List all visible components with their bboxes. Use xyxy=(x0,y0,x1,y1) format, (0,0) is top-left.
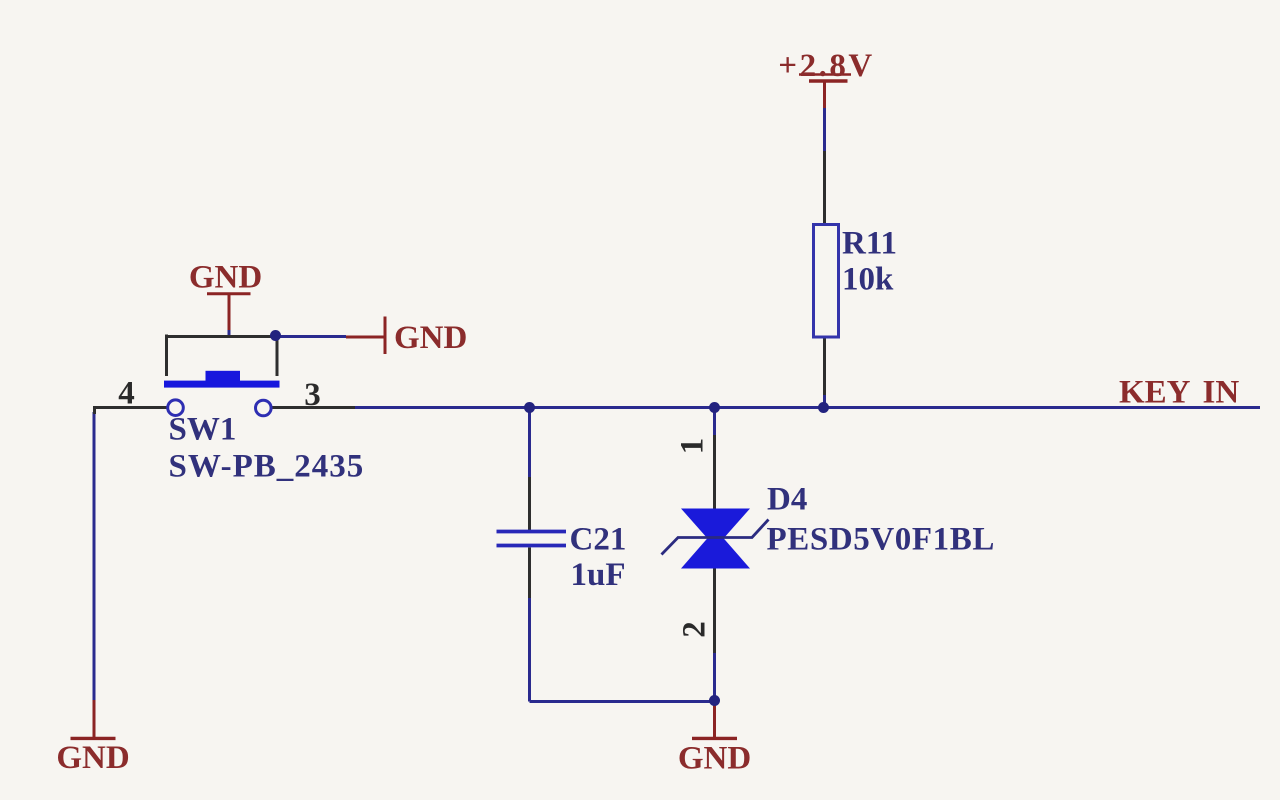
svg-text:GND: GND xyxy=(394,320,467,356)
svg-text:R11: R11 xyxy=(842,226,897,262)
svg-text:1: 1 xyxy=(675,438,711,455)
svg-text:C21: C21 xyxy=(570,522,627,558)
svg-text:PESD5V0F1BL: PESD5V0F1BL xyxy=(767,522,995,558)
svg-text:3: 3 xyxy=(304,377,321,413)
svg-text:IN: IN xyxy=(1203,375,1240,411)
svg-text:10k: 10k xyxy=(842,262,894,298)
svg-text:1uF: 1uF xyxy=(571,557,626,593)
svg-text:2: 2 xyxy=(677,621,713,638)
svg-text:D4: D4 xyxy=(767,482,807,518)
svg-text:SW-PB_2435: SW-PB_2435 xyxy=(169,449,365,485)
svg-text:GND: GND xyxy=(56,740,129,776)
svg-text:4: 4 xyxy=(118,376,135,412)
svg-text:SW1: SW1 xyxy=(169,412,237,448)
svg-text:+2.8V: +2.8V xyxy=(778,48,874,84)
svg-text:KEY: KEY xyxy=(1119,375,1191,411)
svg-text:GND: GND xyxy=(678,741,751,777)
svg-text:GND: GND xyxy=(189,260,262,296)
